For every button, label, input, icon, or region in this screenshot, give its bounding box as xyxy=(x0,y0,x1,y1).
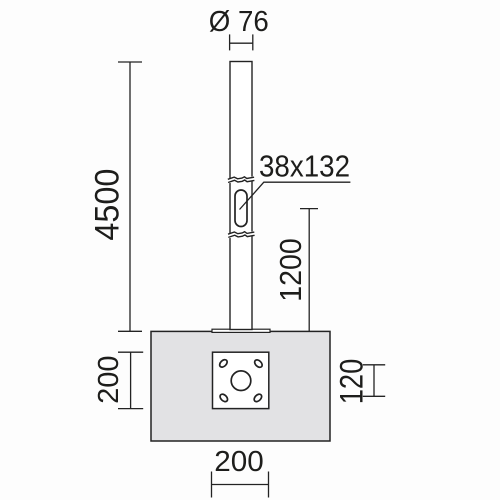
svg-text:1200: 1200 xyxy=(273,238,308,302)
dimension 4500 (left) xyxy=(118,62,142,331)
dimension 76 (top) xyxy=(230,34,253,50)
dimension 120 (right) xyxy=(363,365,385,397)
svg-text:38x132: 38x132 xyxy=(259,148,350,183)
leader line to slot xyxy=(240,182,351,209)
base flange (side view) xyxy=(212,329,270,332)
svg-text:Ø 76: Ø 76 xyxy=(209,6,269,38)
dimension 200 (left of plate) xyxy=(118,352,143,408)
break mark upper xyxy=(227,177,254,183)
svg-text:120: 120 xyxy=(333,359,369,405)
slot hole 38x132 xyxy=(235,190,247,227)
center hole xyxy=(231,371,251,391)
break mark lower xyxy=(228,232,255,238)
svg-text:200: 200 xyxy=(93,355,125,404)
svg-text:4500: 4500 xyxy=(88,169,126,241)
bolt slot top-left xyxy=(218,358,228,368)
foundation block xyxy=(151,331,330,441)
base plate (plan view) xyxy=(213,352,269,408)
dimension 200 (bottom) xyxy=(212,472,269,498)
pole xyxy=(230,62,252,330)
svg-text:200: 200 xyxy=(214,446,264,478)
dimension 1200 (right) xyxy=(300,209,318,332)
bolt slot bottom-left xyxy=(219,393,229,403)
bolt slot bottom-right xyxy=(253,393,263,403)
bolt slot top-right xyxy=(253,358,263,368)
